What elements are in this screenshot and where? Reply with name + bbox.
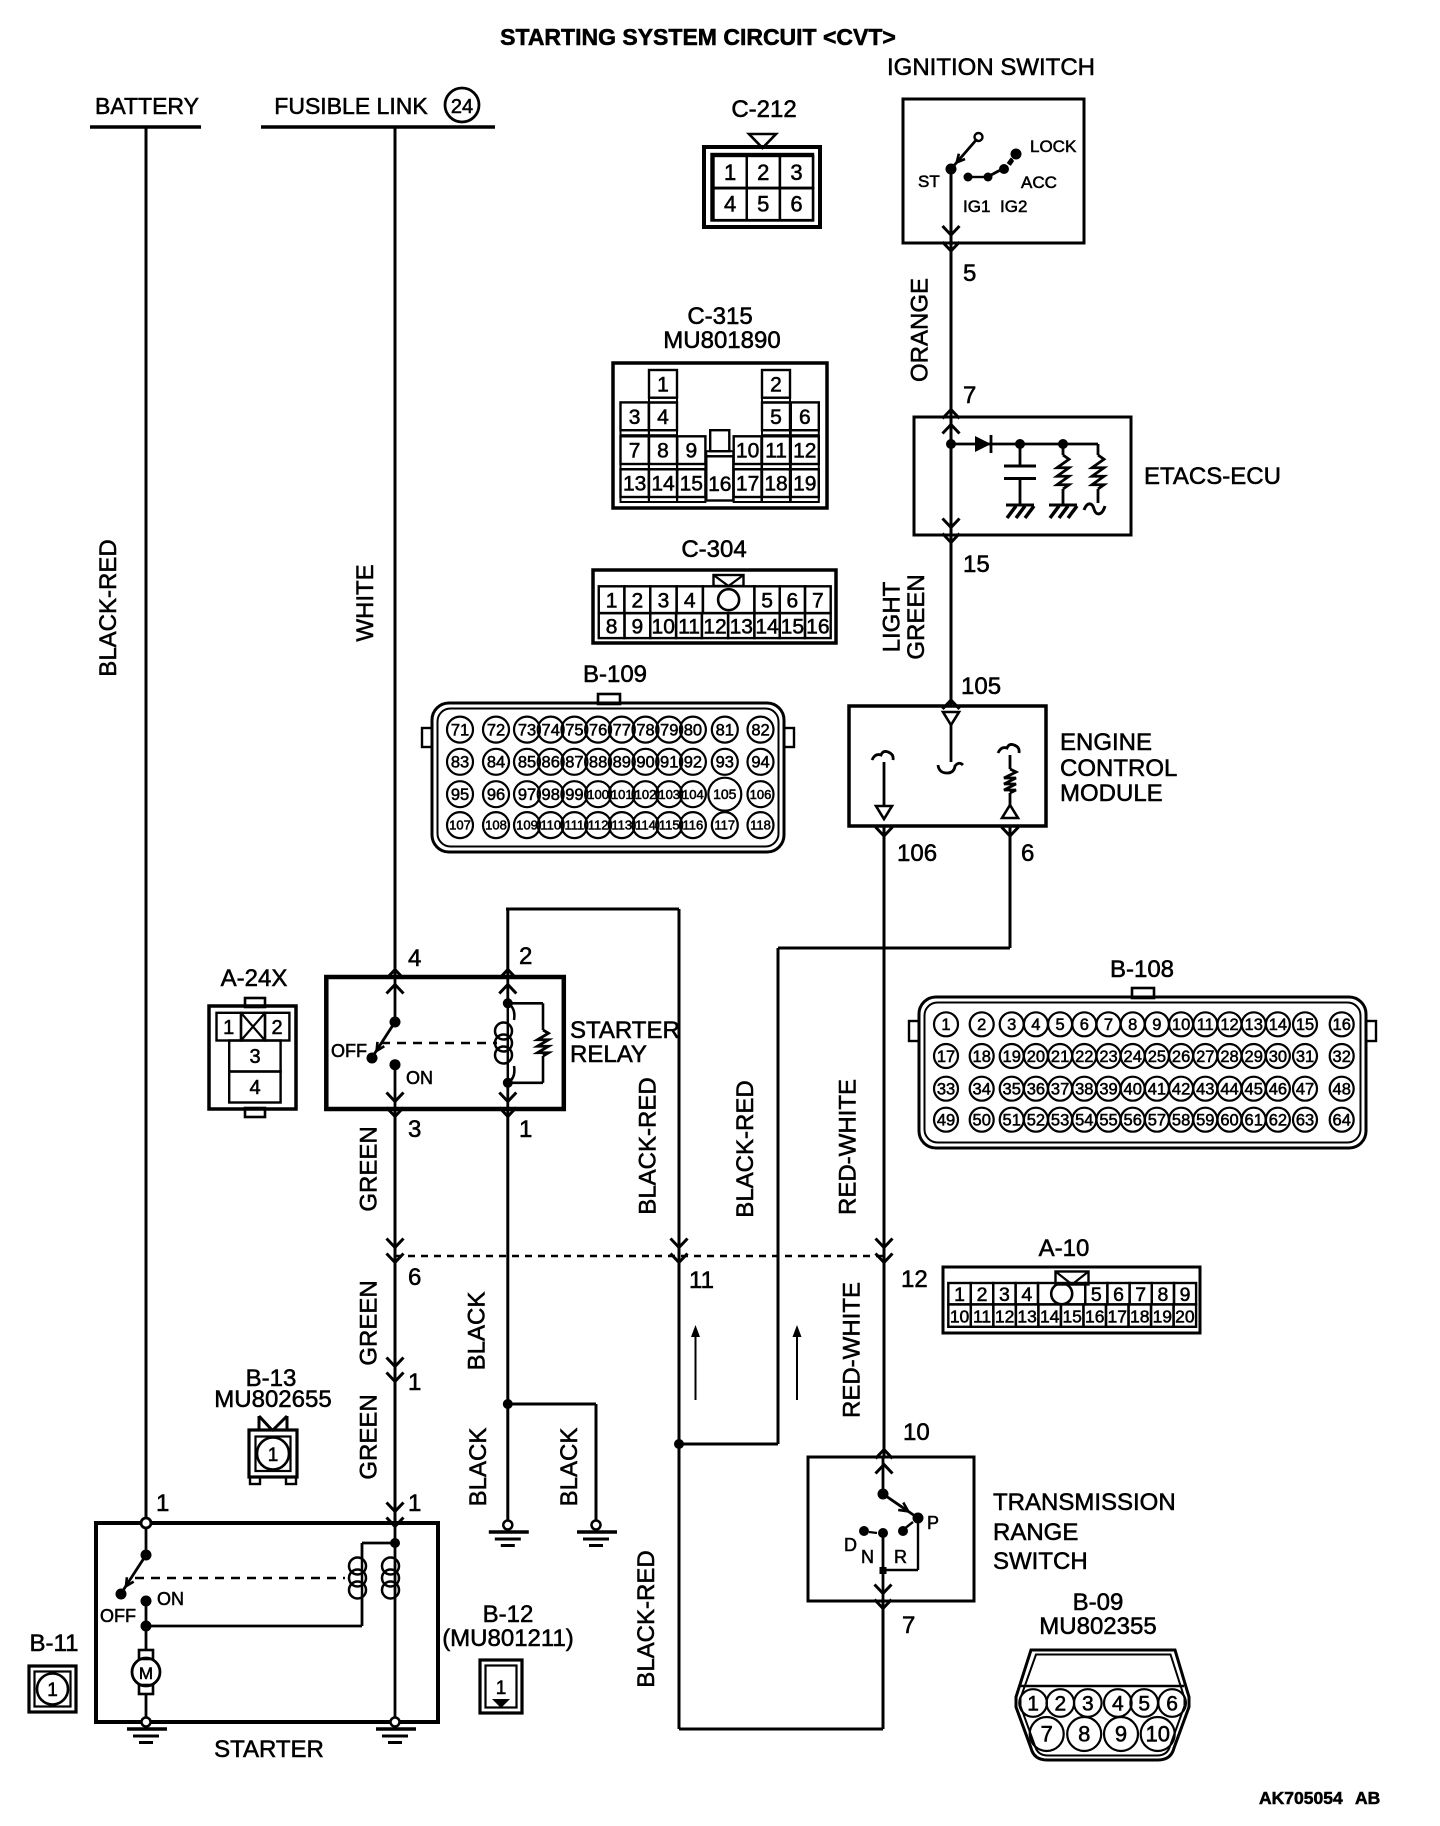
svg-text:17: 17 (937, 1048, 955, 1066)
svg-text:99: 99 (565, 786, 583, 804)
svg-text:2: 2 (770, 373, 782, 396)
svg-text:11: 11 (689, 1267, 714, 1294)
svg-text:WHITE: WHITE (352, 564, 379, 641)
svg-text:7: 7 (902, 1612, 915, 1639)
svg-text:78: 78 (636, 721, 654, 739)
svg-text:22: 22 (1075, 1048, 1093, 1066)
svg-text:SWITCH: SWITCH (993, 1548, 1088, 1575)
svg-text:64: 64 (1333, 1111, 1351, 1129)
svg-text:(MU801211): (MU801211) (442, 1625, 574, 1652)
svg-text:2: 2 (632, 590, 644, 613)
svg-text:1: 1 (1027, 1692, 1039, 1715)
svg-text:BATTERY: BATTERY (95, 93, 199, 119)
svg-text:12: 12 (793, 440, 816, 463)
svg-text:60: 60 (1220, 1111, 1238, 1129)
svg-text:27: 27 (1196, 1048, 1214, 1066)
svg-text:34: 34 (973, 1080, 991, 1098)
svg-text:105: 105 (713, 786, 737, 802)
svg-text:47: 47 (1296, 1080, 1314, 1098)
svg-text:4: 4 (657, 406, 669, 429)
svg-text:17: 17 (736, 473, 759, 496)
svg-text:3: 3 (1007, 1016, 1016, 1034)
svg-text:B-12: B-12 (483, 1601, 534, 1628)
svg-text:89: 89 (613, 754, 631, 772)
svg-text:42: 42 (1172, 1080, 1190, 1098)
svg-text:C-304: C-304 (681, 536, 746, 563)
svg-text:113: 113 (611, 818, 632, 833)
svg-text:24: 24 (1124, 1048, 1142, 1066)
svg-text:ON: ON (157, 1589, 184, 1609)
svg-text:72: 72 (487, 721, 505, 739)
svg-text:100: 100 (587, 787, 609, 802)
svg-text:82: 82 (751, 721, 769, 739)
svg-text:8: 8 (1078, 1722, 1090, 1747)
svg-text:51: 51 (1003, 1111, 1021, 1129)
svg-text:14: 14 (651, 473, 675, 496)
svg-text:4: 4 (1031, 1016, 1040, 1034)
svg-text:6: 6 (787, 590, 799, 613)
svg-text:9: 9 (685, 440, 697, 463)
svg-text:18: 18 (1130, 1307, 1149, 1327)
svg-text:2: 2 (519, 943, 532, 970)
svg-text:58: 58 (1172, 1111, 1190, 1129)
svg-text:8: 8 (657, 440, 669, 463)
svg-text:118: 118 (750, 818, 771, 833)
svg-text:LOCK: LOCK (1030, 137, 1077, 156)
svg-text:87: 87 (565, 754, 583, 772)
svg-text:104: 104 (682, 787, 704, 802)
svg-text:63: 63 (1296, 1111, 1314, 1129)
svg-text:8: 8 (1128, 1016, 1137, 1034)
svg-text:16: 16 (806, 616, 829, 639)
svg-text:6: 6 (408, 1264, 421, 1291)
svg-text:32: 32 (1333, 1048, 1351, 1066)
svg-text:RED-WHITE: RED-WHITE (839, 1282, 866, 1418)
svg-text:33: 33 (937, 1080, 955, 1098)
svg-text:A-10: A-10 (1039, 1235, 1090, 1262)
svg-text:RELAY: RELAY (570, 1041, 647, 1068)
svg-text:ON: ON (406, 1068, 433, 1088)
svg-text:BLACK-RED: BLACK-RED (635, 1077, 662, 1214)
svg-text:40: 40 (1124, 1080, 1142, 1098)
svg-text:M: M (139, 1664, 153, 1683)
svg-text:5: 5 (761, 590, 773, 613)
svg-text:5: 5 (770, 406, 782, 429)
svg-text:98: 98 (542, 786, 560, 804)
svg-text:R: R (894, 1547, 907, 1567)
svg-text:ORANGE: ORANGE (907, 278, 934, 382)
svg-text:BLACK: BLACK (556, 1428, 583, 1507)
svg-text:5: 5 (1091, 1284, 1102, 1306)
svg-text:1: 1 (519, 1116, 532, 1143)
svg-text:5: 5 (757, 192, 769, 217)
svg-text:12: 12 (901, 1266, 928, 1293)
svg-text:MU801890: MU801890 (663, 327, 780, 354)
svg-text:ACC: ACC (1021, 173, 1057, 192)
svg-text:102: 102 (635, 787, 657, 802)
svg-text:116: 116 (683, 818, 704, 833)
svg-text:108: 108 (485, 818, 507, 833)
svg-text:IG2: IG2 (1000, 197, 1027, 216)
svg-text:35: 35 (1003, 1080, 1021, 1098)
svg-text:111: 111 (565, 818, 585, 833)
svg-text:1: 1 (408, 1369, 421, 1396)
svg-text:7: 7 (963, 382, 976, 409)
svg-text:7: 7 (1135, 1284, 1146, 1306)
svg-text:15: 15 (1296, 1016, 1314, 1034)
svg-text:4: 4 (724, 192, 736, 217)
svg-text:110: 110 (540, 818, 561, 833)
svg-text:56: 56 (1124, 1111, 1142, 1129)
svg-text:20: 20 (1027, 1048, 1045, 1066)
svg-text:48: 48 (1333, 1080, 1351, 1098)
svg-text:P: P (927, 1513, 939, 1533)
svg-text:ST: ST (918, 172, 940, 191)
svg-text:AB: AB (1355, 1788, 1380, 1808)
svg-text:15: 15 (680, 473, 703, 496)
svg-text:39: 39 (1099, 1080, 1117, 1098)
svg-text:13: 13 (1245, 1016, 1263, 1034)
svg-text:97: 97 (518, 786, 536, 804)
svg-text:18: 18 (973, 1048, 991, 1066)
svg-text:77: 77 (613, 721, 631, 739)
svg-text:50: 50 (973, 1111, 991, 1129)
svg-text:19: 19 (1003, 1048, 1021, 1066)
svg-text:3: 3 (999, 1284, 1010, 1306)
svg-text:3: 3 (408, 1116, 421, 1143)
svg-text:24: 24 (451, 96, 473, 118)
svg-text:FUSIBLE LINK: FUSIBLE LINK (274, 93, 428, 119)
svg-text:117: 117 (714, 818, 735, 833)
svg-text:B-09: B-09 (1073, 1589, 1124, 1616)
svg-text:95: 95 (451, 786, 469, 804)
svg-text:2: 2 (977, 1016, 986, 1034)
svg-text:OFF: OFF (100, 1606, 136, 1626)
svg-text:1: 1 (268, 1445, 279, 1466)
svg-text:18: 18 (764, 473, 787, 496)
svg-text:1: 1 (941, 1016, 950, 1034)
svg-text:13: 13 (623, 473, 646, 496)
svg-text:RED-WHITE: RED-WHITE (835, 1079, 862, 1215)
svg-text:115: 115 (659, 818, 680, 833)
svg-text:OFF: OFF (331, 1041, 367, 1061)
svg-text:26: 26 (1172, 1048, 1190, 1066)
svg-text:8: 8 (606, 616, 618, 639)
svg-text:11: 11 (678, 616, 700, 639)
svg-text:4: 4 (249, 1077, 260, 1099)
svg-text:31: 31 (1296, 1048, 1314, 1066)
svg-text:14: 14 (755, 616, 779, 639)
svg-text:54: 54 (1075, 1111, 1093, 1129)
svg-text:57: 57 (1148, 1111, 1166, 1129)
svg-text:14: 14 (1269, 1016, 1287, 1034)
svg-text:88: 88 (589, 754, 607, 772)
svg-text:12: 12 (1220, 1016, 1238, 1034)
svg-text:5: 5 (1056, 1016, 1065, 1034)
svg-text:37: 37 (1051, 1080, 1069, 1098)
svg-text:7: 7 (1104, 1016, 1113, 1034)
svg-text:ENGINE: ENGINE (1060, 729, 1152, 756)
svg-text:90: 90 (636, 754, 654, 772)
svg-text:B-108: B-108 (1110, 956, 1174, 983)
svg-text:16: 16 (708, 473, 731, 496)
svg-text:23: 23 (1099, 1048, 1117, 1066)
svg-text:10: 10 (652, 616, 675, 639)
svg-text:10: 10 (1145, 1722, 1169, 1747)
svg-text:1: 1 (408, 1490, 421, 1517)
svg-text:80: 80 (684, 721, 702, 739)
svg-text:29: 29 (1245, 1048, 1263, 1066)
svg-text:GREEN: GREEN (903, 574, 930, 659)
svg-text:53: 53 (1051, 1111, 1069, 1129)
svg-text:BLACK: BLACK (465, 1428, 492, 1507)
svg-text:2: 2 (757, 160, 769, 185)
svg-text:9: 9 (1115, 1722, 1127, 1747)
svg-text:4: 4 (684, 590, 696, 613)
svg-text:52: 52 (1027, 1111, 1045, 1129)
svg-text:1: 1 (606, 590, 618, 613)
svg-text:114: 114 (635, 818, 656, 833)
svg-text:45: 45 (1245, 1080, 1263, 1098)
svg-text:3: 3 (1082, 1692, 1094, 1715)
svg-text:71: 71 (451, 721, 469, 739)
svg-text:CONTROL: CONTROL (1060, 755, 1177, 782)
svg-text:TRANSMISSION: TRANSMISSION (993, 1489, 1176, 1516)
svg-text:1: 1 (657, 373, 669, 396)
svg-text:1: 1 (47, 1680, 58, 1701)
svg-text:9: 9 (632, 616, 644, 639)
svg-text:107: 107 (449, 818, 471, 833)
svg-text:62: 62 (1269, 1111, 1287, 1129)
svg-text:1: 1 (223, 1017, 234, 1039)
svg-text:7: 7 (629, 440, 641, 463)
svg-text:106: 106 (897, 840, 937, 867)
svg-text:75: 75 (565, 721, 583, 739)
svg-text:76: 76 (589, 721, 607, 739)
svg-text:1: 1 (954, 1284, 965, 1306)
svg-text:3: 3 (658, 590, 670, 613)
svg-text:46: 46 (1269, 1080, 1287, 1098)
svg-text:6: 6 (799, 406, 811, 429)
svg-text:MU802655: MU802655 (214, 1386, 331, 1413)
svg-text:55: 55 (1099, 1111, 1117, 1129)
svg-text:1: 1 (156, 1490, 169, 1517)
svg-text:16: 16 (1085, 1307, 1104, 1327)
svg-text:86: 86 (542, 754, 560, 772)
svg-text:B-109: B-109 (583, 661, 647, 688)
svg-text:STARTER: STARTER (570, 1017, 680, 1044)
svg-text:GREEN: GREEN (356, 1394, 383, 1479)
svg-text:IGNITION SWITCH: IGNITION SWITCH (887, 54, 1095, 81)
svg-text:43: 43 (1196, 1080, 1214, 1098)
svg-text:3: 3 (249, 1046, 260, 1068)
svg-text:101: 101 (611, 787, 633, 802)
svg-text:49: 49 (937, 1111, 955, 1129)
svg-text:15: 15 (781, 616, 804, 639)
svg-text:96: 96 (487, 786, 505, 804)
svg-text:25: 25 (1148, 1048, 1166, 1066)
svg-text:30: 30 (1269, 1048, 1287, 1066)
svg-text:73: 73 (518, 721, 536, 739)
svg-text:5: 5 (1138, 1692, 1150, 1715)
svg-text:STARTING SYSTEM CIRCUIT <CVT>: STARTING SYSTEM CIRCUIT <CVT> (500, 24, 896, 50)
svg-text:15: 15 (1062, 1307, 1081, 1327)
svg-text:20: 20 (1175, 1307, 1195, 1327)
svg-text:LIGHT: LIGHT (879, 581, 906, 652)
svg-text:16: 16 (1333, 1016, 1351, 1034)
svg-text:C-212: C-212 (731, 96, 796, 123)
svg-text:105: 105 (961, 673, 1001, 700)
svg-text:91: 91 (660, 754, 678, 772)
svg-text:BLACK: BLACK (464, 1292, 491, 1371)
svg-text:5: 5 (963, 260, 976, 287)
svg-text:94: 94 (751, 754, 769, 772)
svg-text:11: 11 (1197, 1016, 1214, 1034)
svg-text:12: 12 (995, 1307, 1014, 1327)
svg-text:ETACS-ECU: ETACS-ECU (1144, 463, 1281, 490)
svg-text:RANGE: RANGE (993, 1519, 1078, 1546)
svg-text:41: 41 (1148, 1080, 1166, 1098)
svg-text:GREEN: GREEN (356, 1126, 383, 1211)
svg-text:9: 9 (1152, 1016, 1161, 1034)
svg-text:13: 13 (730, 616, 753, 639)
svg-text:MU802355: MU802355 (1039, 1613, 1156, 1640)
svg-text:103: 103 (658, 787, 680, 802)
svg-text:83: 83 (451, 754, 469, 772)
svg-text:11: 11 (973, 1307, 991, 1327)
svg-text:44: 44 (1220, 1080, 1238, 1098)
svg-text:4: 4 (1021, 1284, 1032, 1306)
svg-text:AK705054: AK705054 (1259, 1788, 1343, 1808)
svg-text:4: 4 (1112, 1692, 1124, 1715)
svg-text:74: 74 (542, 721, 560, 739)
svg-text:B-11: B-11 (30, 1630, 79, 1657)
svg-text:14: 14 (1040, 1307, 1060, 1327)
svg-text:BLACK-RED: BLACK-RED (95, 539, 122, 676)
svg-text:84: 84 (487, 754, 505, 772)
svg-text:15: 15 (963, 551, 990, 578)
svg-text:2: 2 (271, 1017, 282, 1039)
svg-text:D: D (844, 1535, 857, 1555)
svg-text:11: 11 (765, 440, 787, 463)
svg-text:19: 19 (1153, 1307, 1172, 1327)
svg-text:9: 9 (1180, 1284, 1191, 1306)
svg-text:92: 92 (684, 754, 702, 772)
svg-text:A-24X: A-24X (221, 965, 288, 992)
svg-text:7: 7 (1041, 1722, 1053, 1747)
svg-text:13: 13 (1017, 1307, 1036, 1327)
svg-text:4: 4 (408, 945, 421, 972)
svg-text:1: 1 (496, 1678, 507, 1699)
svg-text:2: 2 (1054, 1692, 1066, 1715)
svg-text:10: 10 (950, 1307, 970, 1327)
svg-text:1: 1 (724, 160, 736, 185)
svg-text:MODULE: MODULE (1060, 780, 1163, 807)
svg-text:36: 36 (1027, 1080, 1045, 1098)
svg-text:12: 12 (703, 616, 726, 639)
svg-text:BLACK-RED: BLACK-RED (633, 1550, 660, 1687)
svg-text:28: 28 (1220, 1048, 1238, 1066)
svg-text:109: 109 (516, 818, 538, 833)
svg-text:GREEN: GREEN (356, 1280, 383, 1365)
svg-text:6: 6 (1166, 1692, 1178, 1715)
svg-text:BLACK-RED: BLACK-RED (732, 1080, 759, 1217)
svg-text:38: 38 (1075, 1080, 1093, 1098)
svg-text:81: 81 (716, 721, 734, 739)
svg-text:7: 7 (812, 590, 824, 613)
svg-text:3: 3 (790, 160, 802, 185)
svg-text:3: 3 (629, 406, 641, 429)
svg-text:93: 93 (716, 754, 734, 772)
svg-text:10: 10 (736, 440, 759, 463)
svg-text:112: 112 (588, 818, 609, 833)
svg-text:10: 10 (903, 1419, 930, 1446)
svg-text:61: 61 (1245, 1111, 1263, 1129)
svg-text:17: 17 (1108, 1307, 1127, 1327)
svg-text:N: N (861, 1547, 874, 1567)
svg-text:21: 21 (1051, 1048, 1069, 1066)
svg-text:79: 79 (660, 721, 678, 739)
svg-text:8: 8 (1157, 1284, 1168, 1306)
svg-text:IG1: IG1 (963, 197, 990, 216)
svg-text:19: 19 (793, 473, 816, 496)
svg-text:6: 6 (1080, 1016, 1089, 1034)
svg-text:10: 10 (1172, 1016, 1190, 1034)
svg-text:6: 6 (790, 192, 802, 217)
svg-text:C-315: C-315 (687, 303, 752, 330)
svg-text:6: 6 (1113, 1284, 1124, 1306)
svg-text:STARTER: STARTER (214, 1736, 324, 1763)
svg-text:2: 2 (977, 1284, 988, 1306)
svg-text:6: 6 (1021, 840, 1034, 867)
svg-text:106: 106 (750, 787, 772, 802)
svg-text:59: 59 (1196, 1111, 1214, 1129)
svg-text:85: 85 (518, 754, 536, 772)
